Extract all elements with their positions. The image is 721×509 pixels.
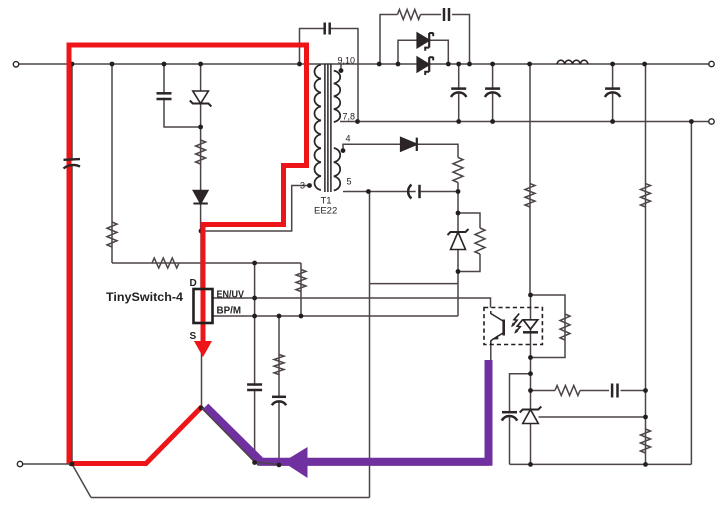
- svg-text:4: 4: [346, 134, 351, 144]
- svg-text:BP/M: BP/M: [217, 305, 242, 317]
- svg-text:5: 5: [347, 177, 352, 187]
- svg-text:EE22: EE22: [314, 206, 337, 217]
- svg-text:3: 3: [300, 181, 305, 191]
- svg-text:S: S: [190, 331, 197, 342]
- svg-text:7,8: 7,8: [343, 112, 356, 122]
- svg-text:D: D: [190, 278, 197, 289]
- svg-text:EN/UV: EN/UV: [217, 289, 245, 301]
- svg-text:TinySwitch-4: TinySwitch-4: [106, 290, 183, 304]
- svg-text:9,10: 9,10: [338, 56, 356, 66]
